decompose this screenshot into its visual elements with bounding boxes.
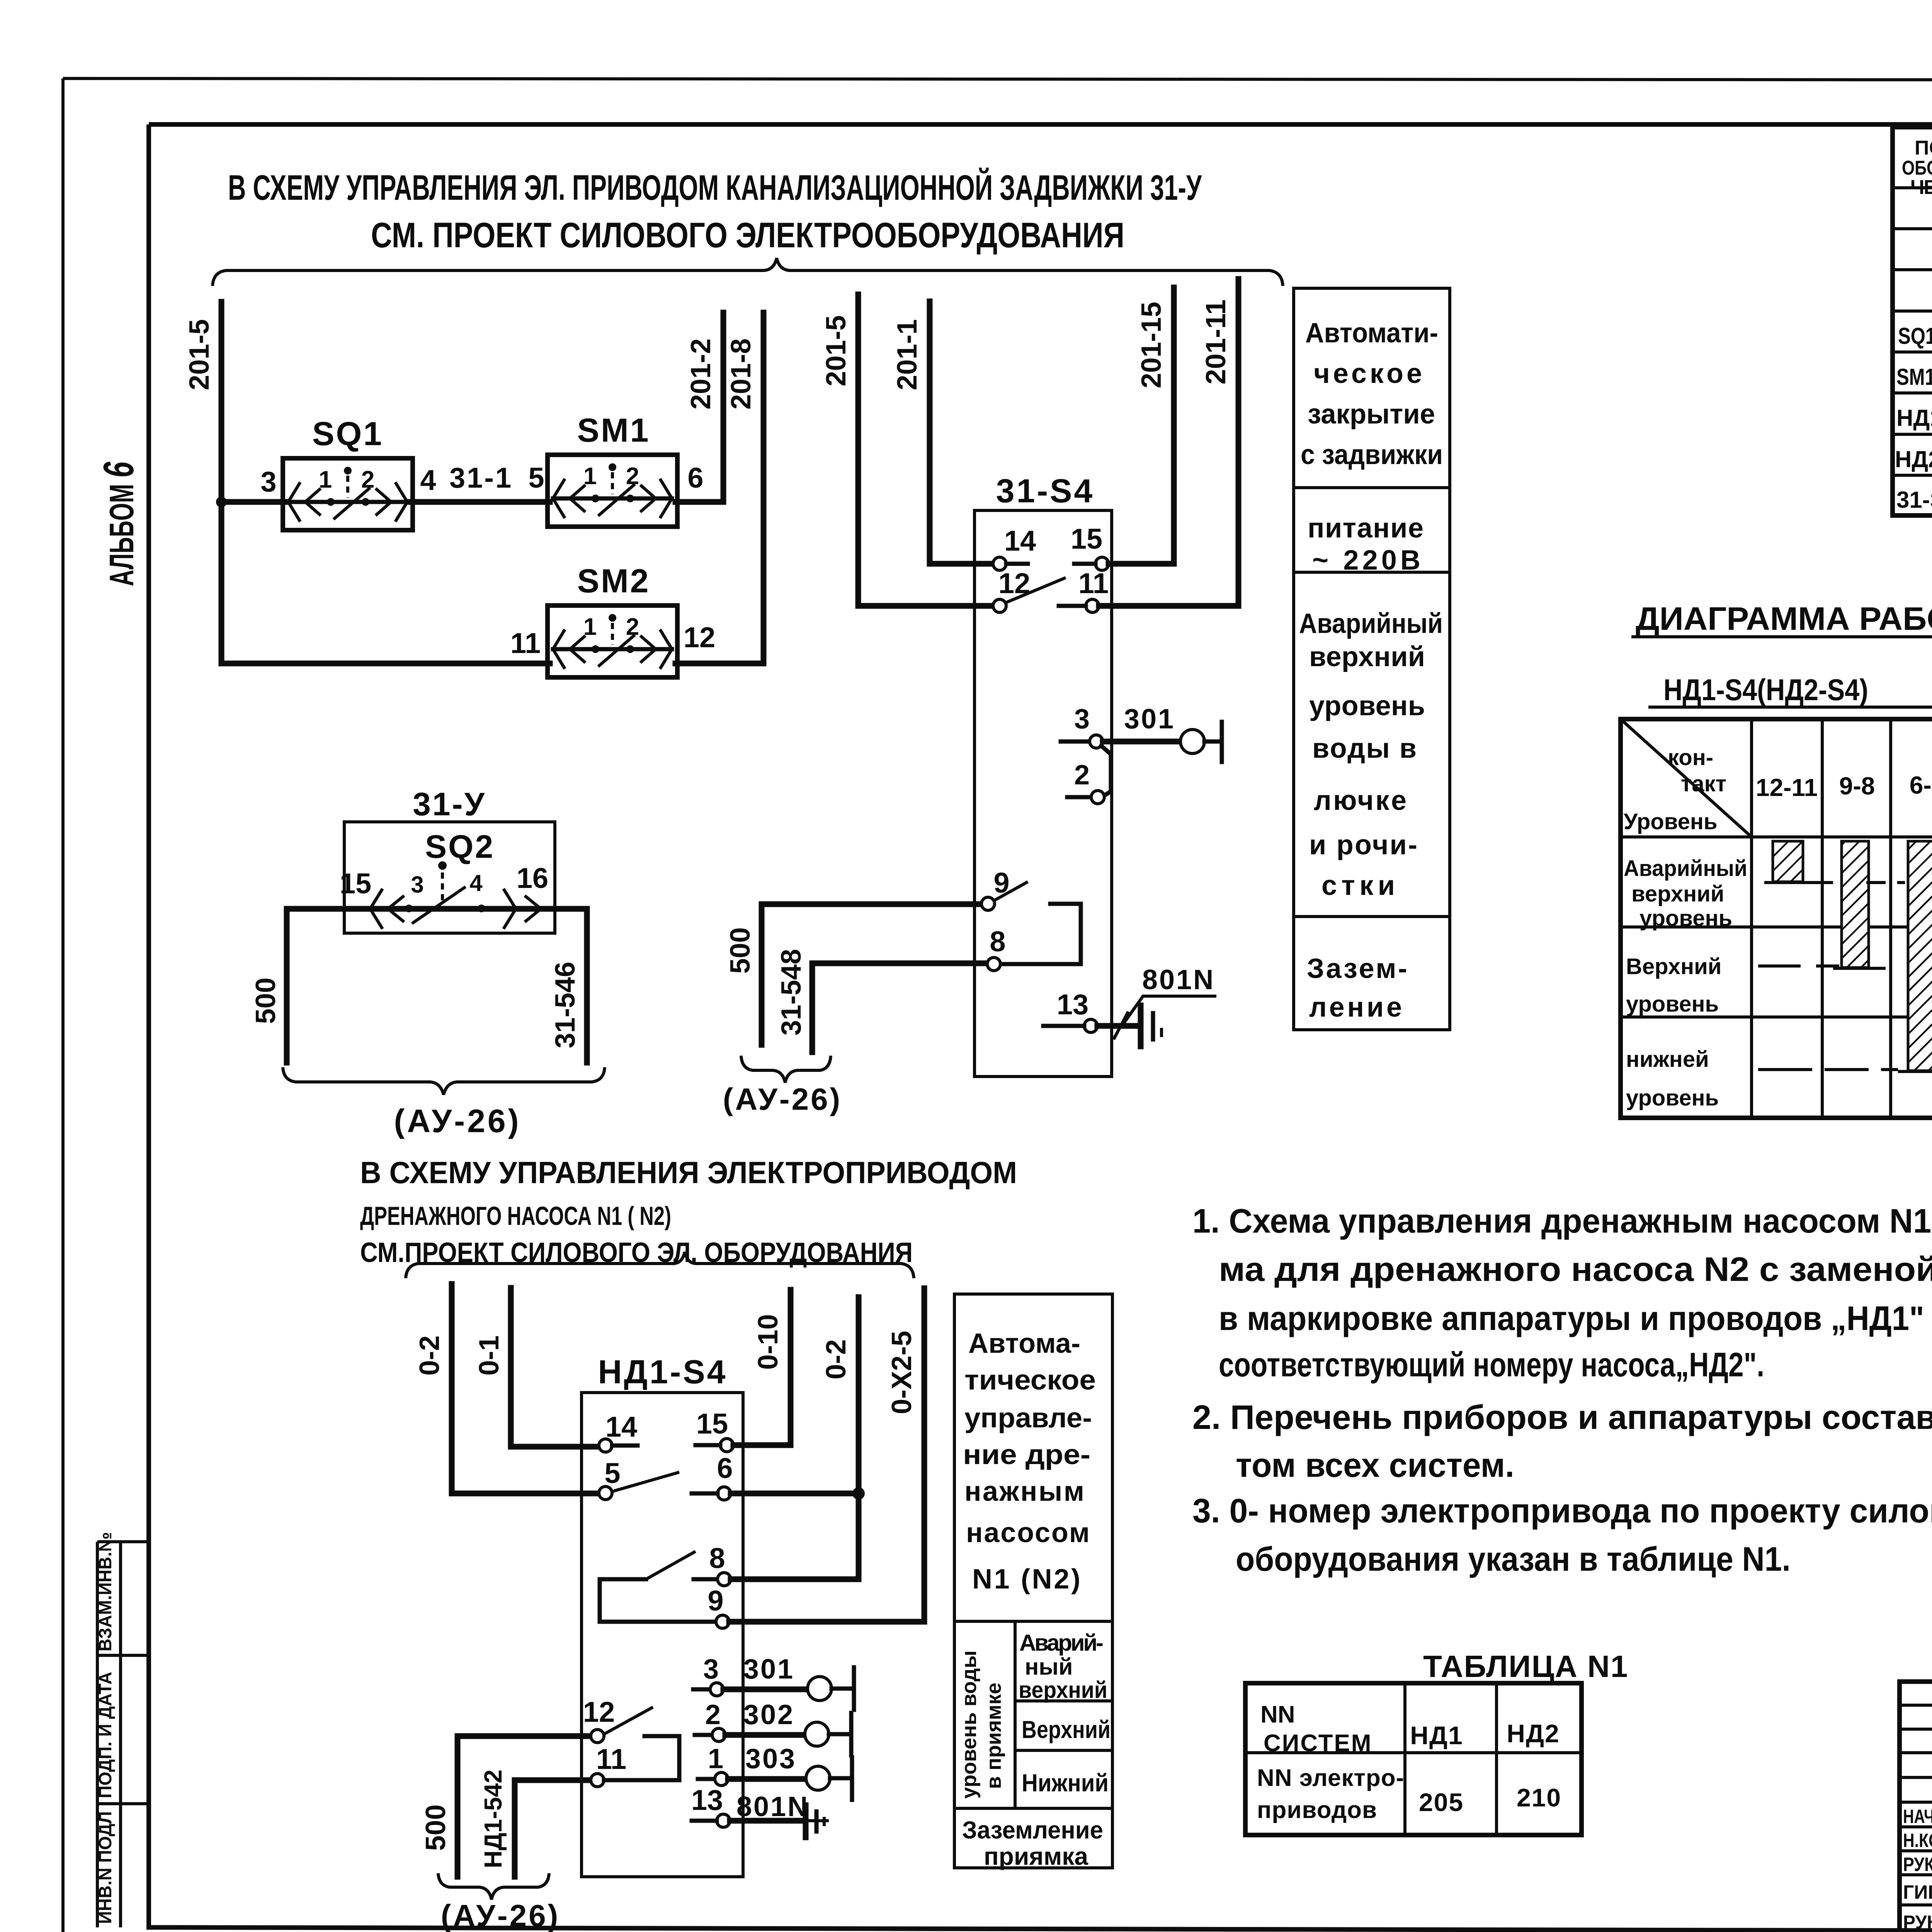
right column: automatic closing xyxy=(1294,288,1450,1030)
wire pin11 to 201-11 xyxy=(1099,279,1238,606)
svg-text:ный: ный xyxy=(1025,1654,1073,1680)
pin 15 xyxy=(1095,557,1109,570)
right drop wire 31-546 xyxy=(584,909,590,1063)
svg-text:N1 (N2): N1 (N2) xyxy=(972,1564,1080,1595)
svg-text:9: 9 xyxy=(707,1585,723,1617)
svg-text:2: 2 xyxy=(361,466,374,493)
SQ2 contact symbol xyxy=(370,889,383,929)
pin 8 with blade xyxy=(600,1577,646,1582)
svg-text:В СХЕМУ УПРАВЛЕНИЯ ЭЛ. ПРИВО: В СХЕМУ УПРАВЛЕНИЯ ЭЛ. ПРИВОДОМ КАНАЛИЗА… xyxy=(228,167,1202,207)
svg-text:такт: такт xyxy=(1681,771,1726,796)
svg-text:уровень: уровень xyxy=(1639,906,1732,931)
svg-text:0-2: 0-2 xyxy=(414,1335,445,1376)
svg-text:Автомати-: Автомати- xyxy=(1305,318,1438,349)
svg-text:2: 2 xyxy=(1074,760,1090,791)
pin 13 ground 801N xyxy=(717,1814,730,1827)
svg-text:в маркировке аппаратуры и п: в маркировке аппаратуры и проводов „НД1"… xyxy=(1219,1299,1932,1337)
svg-text:оборудования указан в табли: оборудования указан в таблице N1. xyxy=(1236,1540,1791,1578)
svg-text:SM1: SM1 xyxy=(577,412,650,449)
wire 201-2 vertical xyxy=(721,313,726,502)
wire 201-1 to pin14 xyxy=(930,301,993,564)
lamp row 1 / 303 xyxy=(698,1777,715,1781)
dashed level marks xyxy=(1866,881,1886,884)
svg-text:302: 302 xyxy=(743,1699,794,1730)
svg-text:ление: ление xyxy=(1309,992,1402,1023)
svg-text:1. Схема управления дренажным: 1. Схема управления дренажным насосом N1… xyxy=(1192,1202,1932,1240)
svg-text:9-8: 9-8 xyxy=(1839,772,1875,800)
svg-text:ДРЕНАЖНОГО НАСОСА N1 ( N2): ДРЕНАЖНОГО НАСОСА N1 ( N2) xyxy=(360,1201,671,1231)
svg-text:насосом: насосом xyxy=(966,1517,1090,1548)
switch SM2 xyxy=(548,605,677,677)
svg-text:14: 14 xyxy=(605,1411,637,1443)
svg-text:0-X2-5: 0-X2-5 xyxy=(886,1331,917,1414)
box ND1-S4 xyxy=(582,1393,743,1877)
svg-text:приямка: приямка xyxy=(984,1842,1088,1870)
box 31-S4 xyxy=(975,510,1112,1077)
svg-text:~ 220В: ~ 220В xyxy=(1312,545,1420,576)
svg-text:тическое: тическое xyxy=(964,1365,1096,1396)
pin 11 xyxy=(1086,599,1099,612)
bracket 9 to 8 xyxy=(1001,904,1081,964)
svg-text:нижней: нижней xyxy=(1626,1047,1709,1072)
svg-text:лючке: лючке xyxy=(1314,785,1406,816)
svg-text:201-8: 201-8 xyxy=(726,338,757,410)
svg-text:0-2: 0-2 xyxy=(821,1339,852,1379)
pin 12 with switch blade xyxy=(993,599,1006,612)
svg-text:воды в: воды в xyxy=(1312,733,1417,764)
svg-text:201-1: 201-1 xyxy=(892,319,923,390)
svg-text:ма для дренажного насоса N2: ма для дренажного насоса N2 с заменой ин… xyxy=(1219,1250,1932,1288)
pin 13 ground xyxy=(1084,1019,1097,1032)
svg-text:Аварийный: Аварийный xyxy=(1624,856,1747,881)
signature table rows xyxy=(1900,1704,1932,1707)
svg-text:SQ1,SQ2: SQ1,SQ2 xyxy=(1898,323,1932,349)
svg-text:801N: 801N xyxy=(736,1791,809,1822)
svg-text:РУК.СЕК: РУК.СЕК xyxy=(1903,1854,1932,1875)
svg-text:РУК.ГР.: РУК.ГР. xyxy=(1903,1912,1932,1932)
pin 12 with blade xyxy=(457,1733,591,1739)
svg-text:2: 2 xyxy=(705,1699,721,1730)
svg-text:уровень: уровень xyxy=(1626,992,1719,1017)
svg-text:6: 6 xyxy=(717,1452,733,1484)
wire pin8 right and up to junction xyxy=(731,1499,859,1579)
svg-text:6-5: 6-5 xyxy=(1910,771,1932,799)
wire pin15 to 0-10 xyxy=(733,1290,791,1445)
bracket 11 to switch contact xyxy=(604,1736,679,1780)
svg-text:ПОДП. И ДАТА: ПОДП. И ДАТА xyxy=(95,1672,115,1798)
svg-text:11: 11 xyxy=(596,1743,626,1775)
wire 0-2 a xyxy=(452,1284,599,1493)
lamp row 2 / 302 xyxy=(695,1733,712,1737)
svg-text:том всех систем.: том всех систем. xyxy=(1236,1446,1514,1484)
svg-text:15: 15 xyxy=(340,867,371,900)
svg-text:1: 1 xyxy=(583,463,597,490)
svg-text:СМ. ПРОЕКТ СИЛОВОГО ЭЛЕКТРОО: СМ. ПРОЕКТ СИЛОВОГО ЭЛЕКТРООБОРУДОВАНИЯ xyxy=(371,216,1124,255)
box 31-U xyxy=(344,822,555,933)
svg-text:приводов: приводов xyxy=(1257,1797,1377,1823)
svg-text:201-5: 201-5 xyxy=(184,319,215,390)
wire pin15 to 201-15 xyxy=(1109,287,1174,564)
svg-text:0-10: 0-10 xyxy=(753,1314,784,1370)
svg-text:(АУ-26): (АУ-26) xyxy=(394,1103,521,1139)
second bundle wire 31-548 xyxy=(812,963,988,1052)
svg-text:Н.КОНТР.: Н.КОНТР. xyxy=(1903,1830,1932,1851)
switch SM1 xyxy=(548,455,677,527)
left sidebar cells xyxy=(96,1542,99,1927)
svg-text:31-548: 31-548 xyxy=(776,949,807,1036)
svg-text:301: 301 xyxy=(1124,704,1175,735)
brace AU-26 second xyxy=(741,1056,831,1083)
svg-text:15: 15 xyxy=(696,1408,728,1440)
svg-text:НД1-S4: НД1-S4 xyxy=(598,1354,727,1391)
svg-text:верхний: верхний xyxy=(1019,1677,1107,1703)
svg-text:(АУ-26): (АУ-26) xyxy=(723,1082,842,1116)
svg-text:31-546: 31-546 xyxy=(550,962,581,1048)
svg-text:11: 11 xyxy=(510,627,541,659)
svg-text:НД1-S4: НД1-S4 xyxy=(1896,405,1932,431)
svg-text:201-11: 201-11 xyxy=(1201,299,1231,384)
svg-text:В СХЕМУ УПРАВЛЕНИЯ ЭЛЕКТРОПР: В СХЕМУ УПРАВЛЕНИЯ ЭЛЕКТРОПРИВОДОМ xyxy=(360,1155,1017,1190)
svg-text:500: 500 xyxy=(250,978,281,1024)
jog pin3 to pin2 xyxy=(1101,746,1111,796)
bottom wire to SM2 xyxy=(221,661,550,667)
svg-text:НД1-542: НД1-542 xyxy=(479,1770,507,1869)
svg-text:31-У: 31-У xyxy=(413,786,486,822)
svg-text:4: 4 xyxy=(469,870,483,896)
svg-text:301: 301 xyxy=(743,1654,794,1685)
svg-text:2: 2 xyxy=(626,463,639,490)
wire through SQ2 xyxy=(287,906,587,912)
svg-text:1: 1 xyxy=(583,614,597,640)
svg-text:13: 13 xyxy=(1057,988,1088,1020)
svg-text:Нижний: Нижний xyxy=(1022,1769,1109,1797)
left drop wire 500 xyxy=(284,909,290,1063)
svg-text:201-5: 201-5 xyxy=(821,315,852,386)
svg-text:верхний: верхний xyxy=(1631,881,1724,906)
pin 14 xyxy=(599,1439,612,1452)
svg-text:кон-: кон- xyxy=(1668,745,1713,770)
wire pin9 to 0-X2-5 xyxy=(729,1288,924,1622)
svg-text:303: 303 xyxy=(745,1743,796,1774)
svg-text:31-S4: 31-S4 xyxy=(996,473,1095,510)
svg-text:1: 1 xyxy=(319,466,332,493)
wire 201-5 to pin12 xyxy=(858,294,993,606)
top brace xyxy=(213,258,1283,286)
svg-text:16: 16 xyxy=(517,862,548,894)
pin 9 with switch blade xyxy=(981,897,995,910)
pin 2 xyxy=(1067,795,1091,799)
svg-text:14: 14 xyxy=(1004,525,1036,557)
svg-text:SM2: SM2 xyxy=(577,563,650,600)
pin 8 xyxy=(987,957,1000,971)
left bundle wires xyxy=(455,1736,461,1877)
svg-text:31-S4: 31-S4 xyxy=(1896,487,1932,513)
svg-text:NN электро-: NN электро- xyxy=(1257,1765,1404,1791)
wire 0-1 xyxy=(511,1288,599,1447)
pin 3 with lamp 301 xyxy=(1061,740,1090,744)
svg-text:уровень: уровень xyxy=(1309,690,1425,721)
svg-text:Верхний: Верхний xyxy=(1626,954,1721,979)
svg-text:500: 500 xyxy=(725,927,756,974)
second bundle wire 500 xyxy=(762,904,982,1045)
svg-text:0-1: 0-1 xyxy=(474,1335,505,1376)
svg-text:уровень воды: уровень воды xyxy=(957,1650,981,1799)
svg-text:801N: 801N xyxy=(1142,964,1215,995)
brace AU-26 xyxy=(283,1067,605,1095)
svg-text:ЧЕНИЕ: ЧЕНИЕ xyxy=(1910,176,1932,199)
svg-text:210: 210 xyxy=(1517,1783,1561,1812)
main title block xyxy=(1900,1682,1932,1932)
svg-text:ГИП: ГИП xyxy=(1903,1881,1932,1903)
svg-text:закрытие: закрытие xyxy=(1308,399,1435,430)
svg-text:Уровень: Уровень xyxy=(1624,809,1718,834)
pin 15 xyxy=(720,1439,733,1452)
bracket 8-9 xyxy=(600,1579,716,1622)
svg-text:6: 6 xyxy=(687,462,703,494)
svg-text:ние дре-: ние дре- xyxy=(963,1439,1090,1470)
svg-text:8: 8 xyxy=(990,925,1005,957)
wire 201-5 vertical left xyxy=(219,302,224,663)
svg-text:SQ2: SQ2 xyxy=(425,828,495,865)
pin 9 xyxy=(716,1615,729,1628)
svg-text:201-2: 201-2 xyxy=(685,338,716,410)
svg-text:соответствующий номеру насос: соответствующий номеру насоса„НД2". xyxy=(1219,1345,1764,1384)
svg-text:NN: NN xyxy=(1260,1701,1295,1728)
svg-text:1: 1 xyxy=(708,1743,723,1774)
svg-text:500: 500 xyxy=(420,1804,451,1851)
svg-text:12: 12 xyxy=(583,1696,615,1728)
svg-text:СИСТЕМ: СИСТЕМ xyxy=(1264,1730,1372,1757)
svg-text:Верхний: Верхний xyxy=(1022,1716,1111,1743)
svg-text:НД1: НД1 xyxy=(1410,1721,1463,1750)
svg-text:3: 3 xyxy=(703,1654,719,1685)
wire 201-8 vertical xyxy=(761,313,767,663)
hatched bars xyxy=(1773,841,1803,882)
svg-text:31-1: 31-1 xyxy=(449,462,513,494)
svg-text:ПОЗ.: ПОЗ. xyxy=(1915,137,1932,159)
pin 14 xyxy=(993,557,1006,570)
svg-text:5: 5 xyxy=(604,1457,620,1489)
svg-text:2. Перечень приборов и апп: 2. Перечень приборов и аппаратуры состав… xyxy=(1192,1398,1932,1436)
svg-text:3. 0- номер электропривода п: 3. 0- номер электропривода по проекту си… xyxy=(1192,1492,1932,1530)
svg-text:ДИАГРАММА РАБОТЫ КОНТАКТОВ: ДИАГРАММА РАБОТЫ КОНТАКТОВ xyxy=(1636,600,1932,637)
brace over ND1 schematic xyxy=(406,1252,914,1278)
svg-text:8: 8 xyxy=(709,1542,725,1574)
svg-text:Заземление: Заземление xyxy=(962,1816,1103,1844)
svg-text:201-15: 201-15 xyxy=(1136,302,1167,388)
svg-text:питание: питание xyxy=(1308,513,1423,544)
svg-text:НД2: НД2 xyxy=(1507,1719,1560,1748)
svg-text:3: 3 xyxy=(411,872,423,898)
svg-text:(АУ-26): (АУ-26) xyxy=(441,1898,560,1932)
svg-text:верхний: верхний xyxy=(1309,641,1425,672)
svg-text:уровень: уровень xyxy=(1626,1085,1719,1111)
svg-text:4: 4 xyxy=(420,464,436,496)
svg-text:НД2-S4: НД2-S4 xyxy=(1895,446,1932,472)
svg-text:Аварий-: Аварий- xyxy=(1019,1630,1104,1656)
switch SQ1 xyxy=(283,458,413,530)
svg-text:3: 3 xyxy=(260,466,276,498)
svg-text:13: 13 xyxy=(691,1784,723,1816)
svg-text:5: 5 xyxy=(528,462,544,494)
svg-text:в приямке: в приямке xyxy=(982,1682,1005,1789)
svg-text:НАЧ.ОТД.: НАЧ.ОТД. xyxy=(1903,1806,1932,1827)
svg-text:3: 3 xyxy=(1074,704,1090,735)
lamp row 3 / 301 xyxy=(693,1687,710,1692)
wire pin6 to 0-2b junction xyxy=(731,1491,859,1497)
svg-text:нажным: нажным xyxy=(964,1476,1084,1507)
pin 5 with blade xyxy=(599,1486,612,1500)
wire row SQ1-SM1 xyxy=(221,499,286,505)
wire 0-2 b xyxy=(856,1297,862,1493)
svg-text:Автома-: Автома- xyxy=(968,1328,1080,1359)
svg-text:SQ1: SQ1 xyxy=(312,415,383,452)
svg-text:управле-: управле- xyxy=(964,1403,1092,1434)
svg-text:с задвижки: с задвижки xyxy=(1301,439,1443,470)
svg-text:12-11: 12-11 xyxy=(1756,774,1818,801)
pin 11 xyxy=(515,1777,591,1783)
svg-text:ВЗАМ.ИНВ.№: ВЗАМ.ИНВ.№ xyxy=(95,1532,115,1651)
svg-text:АЛЬБОМ 6: АЛЬБОМ 6 xyxy=(95,461,143,586)
right column bottom: automatic control xyxy=(954,1294,1112,1868)
svg-text:НД1-S4(НД2-S4): НД1-S4(НД2-S4) xyxy=(1663,673,1868,707)
svg-text:2: 2 xyxy=(626,614,639,640)
svg-text:205: 205 xyxy=(1419,1788,1464,1816)
svg-text:11: 11 xyxy=(1078,567,1109,599)
node junction xyxy=(216,497,227,507)
svg-text:ИНВ.N ПОДЛ: ИНВ.N ПОДЛ xyxy=(95,1811,115,1924)
pin 6 xyxy=(718,1487,731,1500)
svg-text:12: 12 xyxy=(684,621,715,653)
svg-text:ТАБЛИЦА N1: ТАБЛИЦА N1 xyxy=(1423,1649,1628,1684)
svg-text:SM1,SM2: SM1,SM2 xyxy=(1896,364,1932,390)
svg-text:Аварийный: Аварийный xyxy=(1299,608,1443,639)
svg-text:15: 15 xyxy=(1071,523,1102,555)
svg-text:и рочи-: и рочи- xyxy=(1309,830,1417,861)
